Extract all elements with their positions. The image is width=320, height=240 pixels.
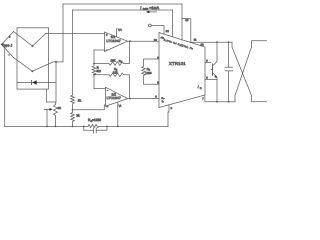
- wire U1A V+ stub: [116, 29, 118, 37]
- capacitor C1 loop cap leads: [228, 42, 230, 101]
- svg-text:Type J: Type J: [2, 43, 12, 47]
- svg-text:1k: 1k: [78, 98, 82, 102]
- svg-text:+: +: [106, 105, 108, 109]
- capacitor C1 plates: [225, 67, 233, 71]
- svg-text:LTC1047: LTC1047: [106, 39, 120, 43]
- resistor RG zigzag inline: [88, 124, 168, 127]
- capacitor C2 plates: [93, 128, 96, 133]
- thermocouple vertex mark: [0, 43, 3, 46]
- wire U1B V- stub: [117, 102, 119, 126]
- node cap bottom: [228, 101, 230, 103]
- wire loop crossing X left diagonal: [232, 42, 252, 101]
- resistor R1 10k horizontal: [94, 41, 129, 65]
- node cap top junction: [228, 41, 230, 43]
- wire diode node vertical down: [55, 62, 57, 102]
- svg-text:10k: 10k: [111, 58, 116, 62]
- node V- to rail: [117, 125, 119, 127]
- svg-text:O: O: [200, 87, 202, 90]
- isothermal box: [17, 28, 49, 89]
- wire loop crossing X right diagonal: [235, 47, 252, 102]
- svg-text:(9): (9): [201, 44, 204, 47]
- wire pin 9 stub down to left bottom rail: [168, 105, 169, 127]
- svg-text:RG=1250: RG=1250: [88, 118, 101, 123]
- node upper thermocouple junction: [32, 45, 34, 47]
- node 2k bottom: [72, 126, 74, 128]
- wire outer rail left vertical: [62, 4, 64, 62]
- svg-text:V+: V+: [118, 28, 122, 32]
- svg-text:9: 9: [171, 107, 173, 110]
- resistor RS span loop: [142, 59, 159, 84]
- svg-text:50: 50: [58, 106, 62, 110]
- node pot bottom: [55, 126, 57, 128]
- wire op-amp U1 +input wire: [46, 33, 105, 35]
- svg-text:=1mA: =1mA: [149, 6, 159, 10]
- svg-text:2k: 2k: [76, 113, 80, 117]
- wire U1B output to XTR pin 3: [128, 98, 160, 100]
- svg-text:13: 13: [154, 39, 157, 42]
- node R2 feedback to output: [129, 98, 131, 100]
- wire U1A inverting input: [94, 49, 105, 51]
- transistor Q1 base stub pin 8: [205, 62, 211, 64]
- node R1 left on bus: [93, 63, 95, 65]
- wire thermocouple lower lead V: [14, 58, 64, 72]
- wire pin 6 stub to emitter: [205, 79, 217, 81]
- wire center bus upper: [93, 50, 95, 66]
- resistor R4 2k vertical zigzag: [71, 110, 75, 127]
- svg-text:Iᵢ₀: Iᵢ₀: [162, 100, 164, 103]
- node diode tap junction: [55, 61, 57, 63]
- svg-text:REF: REF: [143, 8, 149, 11]
- node lower thermocouple junction: [31, 70, 33, 72]
- svg-text:V-: V-: [119, 104, 122, 108]
- svg-text:+: +: [9, 35, 11, 39]
- svg-text:412: 412: [96, 69, 101, 73]
- resistor R5 1k vertical zigzag: [71, 95, 75, 110]
- wire bottom left rail: [5, 125, 88, 127]
- wire outer top rail: [63, 3, 182, 5]
- wire inner rail right vertical to XTR top edge: [172, 10, 174, 37]
- diode D1: [32, 80, 37, 84]
- node wiper bottom: [46, 126, 48, 128]
- node R2 left on bus: [93, 74, 95, 76]
- svg-text:7: 7: [202, 98, 204, 101]
- node R1 feedback to output: [129, 40, 131, 42]
- wire loop bottom right rail: [252, 101, 267, 103]
- wire pin jog near label 10: [182, 19, 191, 43]
- wire loop top right stub: [252, 41, 267, 47]
- thermocouple TC1 Type J body: [2, 32, 14, 58]
- svg-text:12: 12: [166, 30, 169, 33]
- wire tap to op2 input: [73, 105, 106, 110]
- wire jog to pot top: [47, 89, 57, 105]
- resistor R2 10k horizontal: [94, 73, 129, 99]
- wire bus to op2 + input: [94, 88, 106, 90]
- node emitter to rail: [216, 101, 218, 103]
- node transistor collector junction: [216, 41, 218, 43]
- op-amp U1A triangle: [105, 32, 128, 52]
- svg-text:10k: 10k: [113, 70, 118, 74]
- op-amp U1B triangle: [106, 87, 128, 106]
- transistor Q1 emitter with arrow: [213, 73, 218, 102]
- IC XTR101 body: [159, 33, 205, 108]
- svg-text:LTC1047: LTC1047: [107, 96, 121, 100]
- wire pot bottom lead: [55, 117, 57, 127]
- wire XTR V+ rail to loop: [190, 41, 232, 43]
- wire inner top rail: [73, 9, 173, 11]
- transistor Q1 base bar: [212, 64, 214, 75]
- terminal open circle: [148, 24, 151, 27]
- current arrow: [148, 11, 157, 13]
- resistor R3 412 vertical zigzag: [92, 66, 96, 89]
- node RG left: [83, 126, 85, 128]
- potentiometer P1 wiper arrow: [44, 108, 50, 110]
- diode D1 wire: [17, 82, 56, 84]
- wire outer rail right vertical to XTR pin 10: [181, 4, 183, 40]
- wire pin 7 output down to bottom loop rail: [205, 95, 235, 102]
- node cap right: [106, 126, 108, 128]
- svg-text:11: 11: [194, 38, 197, 41]
- svg-text:K,IvYo IoI F,(I)YoI, Fo: K,IvYo IoI F,(I)YoI, Fo: [163, 38, 194, 50]
- wire from circle to XTR pin 12: [151, 26, 164, 35]
- wire inner rail left vertical down to 2k resistor: [72, 10, 74, 95]
- svg-text:XTR101: XTR101: [169, 61, 186, 66]
- wire wiper vertical to bottom rail: [46, 109, 48, 126]
- wire left side vertical from thermocouple to bottom rail: [4, 46, 6, 127]
- capacitor C2 parallel branch: [84, 126, 107, 130]
- wire thermocouple upper lead V into isothermal box: [14, 32, 46, 47]
- transistor Q1 collector: [213, 42, 218, 66]
- svg-text:1250: 1250: [145, 71, 152, 75]
- svg-text:I: I: [198, 85, 199, 89]
- potentiometer P1 body: [54, 105, 58, 117]
- svg-text:+: +: [106, 33, 108, 37]
- transistor Q1 base lead: [211, 69, 213, 71]
- svg-text:10: 10: [185, 19, 188, 22]
- wire U1A output to XTR pin 13: [128, 40, 160, 42]
- svg-text:3: 3: [155, 96, 157, 99]
- node tap between resistors: [72, 109, 74, 111]
